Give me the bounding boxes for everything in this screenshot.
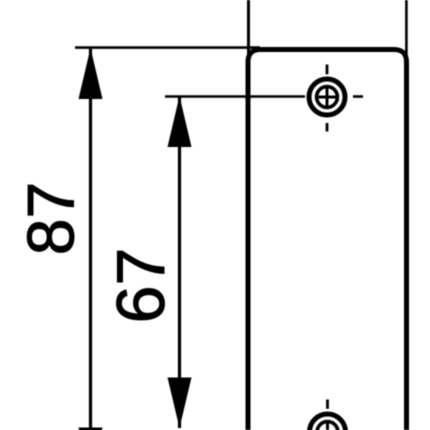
screw top centerline dash above <box>326 65 329 75</box>
screw top outer circle <box>309 79 345 115</box>
screw bottom centerline dash above <box>326 400 329 409</box>
cropped edge line above plate right <box>405 0 408 64</box>
screw top centerline dash below <box>326 123 329 132</box>
svg-text:87: 87 <box>14 182 88 255</box>
screw bottom cross slot <box>326 420 329 430</box>
cropped edge line above plate left <box>247 0 250 59</box>
screw bottom outer circle <box>310 414 346 430</box>
faceplate outline <box>248 50 407 430</box>
dimension line 87 <box>89 49 92 430</box>
arrowhead 87 down (clipped at image bottom) <box>79 428 103 430</box>
screw top cross slot <box>315 96 338 99</box>
extension line top (87 datum) <box>75 46 260 49</box>
extension line / screw centerline horizontal (67 datum) <box>165 95 305 98</box>
screw centerline right dash <box>353 95 363 98</box>
screw bottom inner circle <box>317 422 338 430</box>
arrowhead 67 up <box>168 96 192 147</box>
screw top inner circle <box>317 87 338 108</box>
dimension line 67 <box>178 97 181 428</box>
arrowhead 67 down <box>168 378 192 429</box>
arrowhead 87 up <box>79 48 103 99</box>
svg-text:67: 67 <box>103 248 179 324</box>
